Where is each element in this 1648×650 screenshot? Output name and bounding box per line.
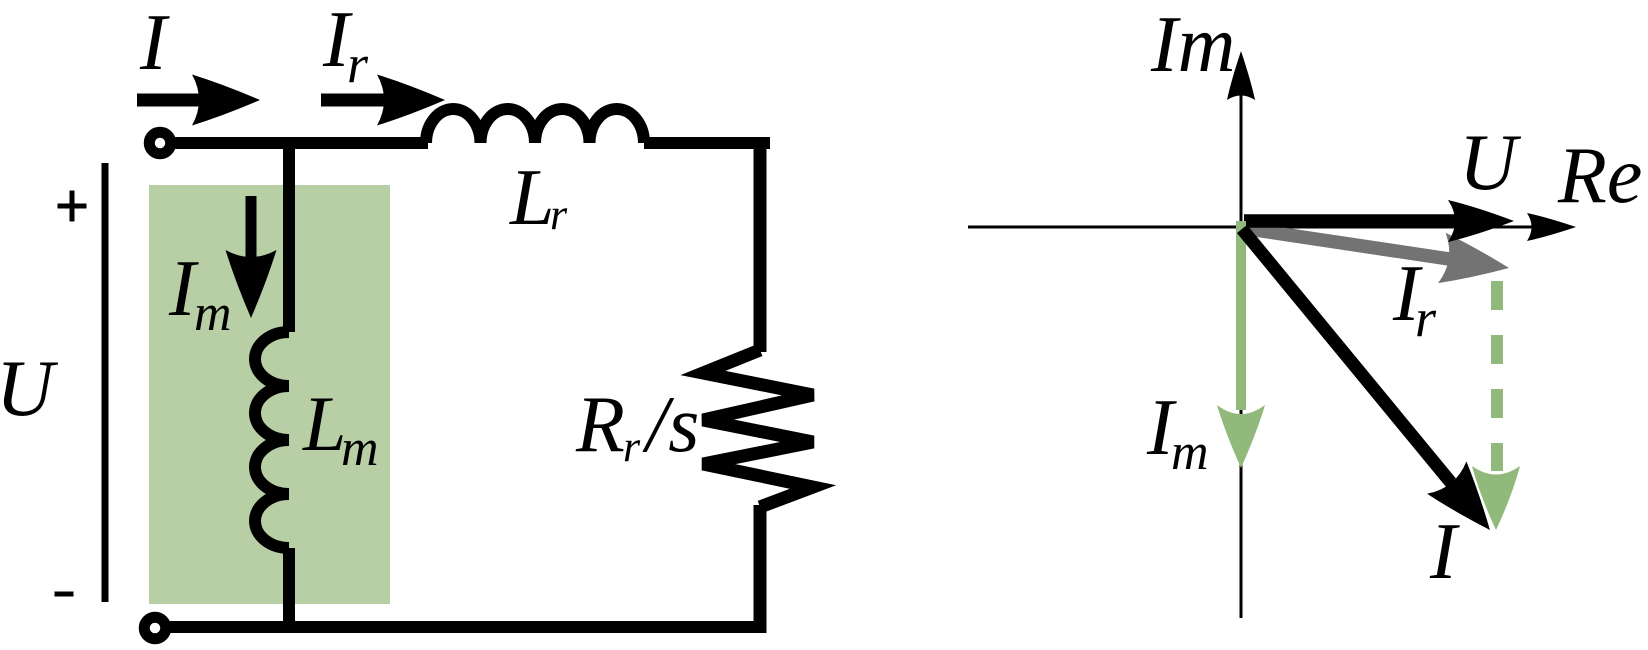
svg-text:m: m (341, 420, 379, 477)
svg-text:U: U (0, 345, 59, 433)
svg-text:R: R (575, 381, 625, 469)
svg-text:I: I (1429, 508, 1460, 596)
svg-text:Im: Im (1150, 1, 1235, 89)
svg-text:/s: /s (642, 381, 699, 469)
svg-text:m: m (194, 285, 232, 342)
svg-text:L: L (302, 380, 346, 467)
svg-text:m: m (1171, 424, 1209, 481)
svg-text:I: I (139, 0, 170, 87)
svg-text:r: r (623, 422, 641, 471)
svg-text:L: L (509, 154, 555, 242)
svg-text:r: r (347, 34, 369, 94)
svg-text:Re: Re (1557, 132, 1642, 220)
svg-text:r: r (550, 190, 568, 239)
svg-text:r: r (1415, 288, 1437, 348)
svg-text:U: U (1459, 119, 1522, 207)
